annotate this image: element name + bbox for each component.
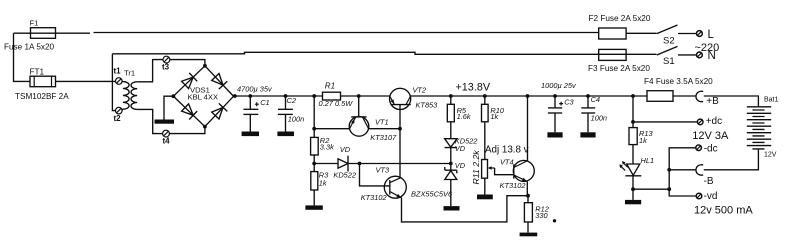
- resistor R5: [450, 96, 452, 104]
- wire R10 to R11: [484, 122, 486, 160]
- svg-text:1k: 1k: [639, 136, 647, 145]
- wire VT2 base / VT3 collector column: [399, 105, 401, 179]
- node rail C3: [553, 94, 557, 98]
- switch S2: [657, 25, 678, 34]
- fuse FT1: [30, 76, 56, 87]
- svg-text:100n: 100n: [288, 114, 304, 123]
- node KD522 to VT3 base: [358, 162, 362, 166]
- diode bridge bottom-right: [212, 103, 228, 119]
- svg-text:+dc: +dc: [706, 116, 722, 127]
- node rail C4: [586, 94, 590, 98]
- ground bridge: [155, 120, 175, 124]
- capacitor C1: [249, 96, 251, 132]
- svg-text:12V 3A: 12V 3A: [692, 130, 729, 142]
- diode VD KD522 left: [338, 156, 348, 172]
- wire N down to t2: [112, 54, 115, 111]
- wire secondary bottom to t4: [137, 109, 162, 133]
- wire VD to zener node: [450, 148, 452, 171]
- wire LED node to negative column: [633, 188, 669, 190]
- node rail bridge output: [233, 94, 237, 98]
- capacitor C3: [554, 96, 556, 132]
- wire left vertical F1 to FT1: [14, 33, 31, 81]
- wire dc positive rail: [234, 95, 696, 97]
- svg-text:+B: +B: [706, 96, 719, 107]
- svg-text:330: 330: [535, 211, 548, 220]
- node zener KD row: [449, 162, 453, 166]
- svg-text:VT2: VT2: [413, 86, 427, 95]
- ground C1: [242, 132, 259, 137]
- terminal t4: [163, 130, 170, 137]
- svg-text:KT3102: KT3102: [361, 193, 387, 202]
- node VT1 emitter tap: [312, 127, 316, 131]
- capacitor C2: [285, 96, 287, 132]
- svg-text:3.3k: 3.3k: [320, 143, 334, 152]
- svg-text:1k: 1k: [319, 178, 327, 187]
- svg-text:C3: C3: [564, 98, 574, 107]
- node -vd tap: [667, 187, 671, 191]
- svg-text:0.27 0.5W: 0.27 0.5W: [319, 99, 354, 108]
- node bridge left corner: [172, 94, 176, 98]
- node rail C2: [284, 94, 288, 98]
- wire L mains top rail: [14, 32, 657, 35]
- wire t3 to bridge top corner: [170, 60, 205, 66]
- svg-text:F2 Fuse 2A 5x20: F2 Fuse 2A 5x20: [589, 14, 651, 23]
- resistor R3: [311, 172, 318, 190]
- svg-text:1k: 1k: [490, 112, 498, 121]
- node R12 top: [526, 194, 530, 198]
- svg-text:L: L: [708, 29, 715, 41]
- terminal t2: [116, 107, 123, 114]
- svg-text:12v 500 mA: 12v 500 mA: [694, 205, 753, 217]
- ground R11: [477, 195, 493, 200]
- terminal t1: [116, 78, 123, 85]
- diode VD KD522 right: [445, 139, 457, 148]
- node bridge top corner: [203, 64, 207, 68]
- label + C1: [255, 102, 259, 106]
- svg-text:t3: t3: [162, 63, 170, 72]
- wire t4 to bridge bottom corner: [169, 127, 205, 134]
- diode bridge top-left: [182, 73, 198, 89]
- svg-text:S1: S1: [663, 56, 675, 67]
- transformer Tr1 primary winding: [122, 81, 129, 110]
- svg-text:F4 Fuse 3.5A 5x20: F4 Fuse 3.5A 5x20: [644, 77, 713, 86]
- node rail C1: [248, 94, 252, 98]
- fuse F2: [599, 28, 626, 39]
- wire R13 to LED: [632, 145, 634, 164]
- diode bridge top-right: [212, 74, 228, 90]
- svg-text:TSM102BF 2A: TSM102BF 2A: [15, 92, 69, 101]
- svg-text:BZX55C5V6: BZX55C5V6: [411, 189, 453, 198]
- wire R12 to ground: [527, 222, 529, 233]
- battery Bat1: [747, 107, 771, 146]
- svg-text:Bat1: Bat1: [764, 97, 779, 104]
- wire FT1 row: [56, 80, 116, 82]
- fuse F3: [599, 49, 626, 60]
- wire R5 to VD chain: [450, 122, 452, 139]
- wire -dc to negative column: [669, 148, 696, 196]
- svg-text:R11 2.2k: R11 2.2k: [471, 150, 481, 185]
- resistor R10: [484, 96, 486, 104]
- svg-text:4700µ 35v: 4700µ 35v: [237, 85, 273, 94]
- svg-text:Fuse 1A 5x20: Fuse 1A 5x20: [4, 43, 55, 52]
- svg-text:KBL 4XX: KBL 4XX: [188, 93, 219, 102]
- diode bridge bottom-left: [182, 104, 198, 120]
- wiper R11: [489, 167, 494, 169]
- stray dot: [553, 219, 556, 222]
- svg-text:-vd: -vd: [704, 191, 718, 202]
- node +dc tap: [631, 120, 635, 124]
- transistor VT2: [390, 88, 411, 109]
- svg-text:t2: t2: [114, 114, 122, 123]
- wire left bias rail down: [313, 96, 315, 172]
- svg-text:1.6k: 1.6k: [457, 112, 471, 121]
- wire N mains rail: [112, 52, 656, 54]
- svg-text:VD: VD: [455, 144, 466, 153]
- connector +B: [696, 91, 703, 101]
- wire battery minus to -B: [704, 149, 759, 170]
- svg-text:100n: 100n: [591, 114, 607, 123]
- svg-text:C2: C2: [287, 96, 296, 105]
- svg-text:S2: S2: [663, 36, 675, 47]
- svg-text:KD522: KD522: [333, 171, 356, 180]
- wire zener to ground: [450, 180, 452, 207]
- svg-text:F3 Fuse 2A 5x20: F3 Fuse 2A 5x20: [588, 64, 650, 73]
- svg-text:~220: ~220: [695, 42, 720, 54]
- svg-text:F1: F1: [30, 19, 39, 28]
- bridge rectifier VDS1 diamond: [173, 66, 233, 127]
- wire bridge minus to ground: [164, 96, 173, 119]
- node VT2 base column: [398, 127, 402, 131]
- svg-text:C1: C1: [260, 98, 269, 107]
- svg-text:Tr1: Tr1: [124, 69, 135, 78]
- svg-text:R1: R1: [325, 82, 335, 91]
- ground C4: [580, 132, 595, 137]
- svg-text:VT1: VT1: [375, 118, 389, 127]
- svg-text:-B: -B: [704, 176, 714, 187]
- label + C3: [559, 102, 563, 106]
- wire VT3 base: [360, 164, 390, 186]
- node rail R10: [483, 94, 487, 98]
- ground HL1: [625, 200, 641, 204]
- svg-text:VD: VD: [455, 161, 466, 170]
- svg-text:FT1: FT1: [30, 67, 45, 76]
- wire R13 column top: [632, 96, 634, 128]
- node KD522 row tap: [312, 162, 316, 166]
- svg-text:KT3102: KT3102: [500, 181, 526, 190]
- fuse F4: [647, 91, 673, 102]
- svg-text:VT4: VT4: [500, 157, 514, 166]
- terminal +dc: [697, 119, 703, 125]
- svg-text:C4: C4: [591, 95, 600, 104]
- ground C3: [547, 132, 562, 137]
- ground zener: [444, 206, 460, 210]
- terminal -dc: [696, 145, 702, 151]
- wire -B: [669, 169, 696, 171]
- wire LED to ground node: [632, 176, 634, 200]
- node bridge bottom corner: [203, 125, 207, 129]
- switch S1: [657, 46, 678, 55]
- wire R11 to ground: [484, 178, 486, 194]
- ground C2: [277, 132, 294, 137]
- wire KD522 row: [314, 163, 451, 165]
- svg-text:HL1: HL1: [641, 156, 655, 165]
- node -B tap: [667, 168, 671, 172]
- terminal -vd: [696, 193, 702, 199]
- capacitor C4: [587, 96, 589, 132]
- transformer Tr1 secondary winding: [131, 82, 137, 110]
- resistor R12: [527, 196, 529, 203]
- node rail R13 tap: [631, 94, 635, 98]
- wire R3 to ground: [313, 190, 315, 205]
- transistor VT4: [513, 160, 534, 181]
- svg-text:12V: 12V: [764, 152, 777, 159]
- potentiometer R11: [482, 160, 488, 179]
- resistor R1: [323, 92, 341, 100]
- svg-text:1000µ 25v: 1000µ 25v: [541, 81, 577, 90]
- svg-text:-dc: -dc: [704, 143, 718, 154]
- wire VT4 emitter: [526, 181, 528, 195]
- svg-text:t1: t1: [114, 67, 122, 76]
- terminal L: [697, 31, 703, 37]
- transistor VT1: [349, 117, 369, 137]
- svg-text:+13.8V: +13.8V: [456, 81, 491, 93]
- svg-text:VT3: VT3: [376, 165, 390, 174]
- wire VT1 collector to VT2 base column: [369, 128, 400, 130]
- zener diode BZX55C5V6: [445, 167, 457, 180]
- wire VT1 emitter: [314, 128, 349, 130]
- node LED bottom: [631, 187, 635, 191]
- resistor R13: [629, 128, 637, 145]
- wire secondary top to t3: [137, 60, 163, 82]
- wire VT4 collector: [527, 96, 529, 161]
- connector -B: [696, 165, 703, 175]
- svg-text:VD: VD: [340, 145, 351, 154]
- svg-text:KT853: KT853: [416, 101, 439, 110]
- node rail VT4 collector: [526, 94, 530, 98]
- LED HL1: [625, 164, 641, 176]
- svg-text:t4: t4: [163, 137, 171, 146]
- wire +dc: [633, 121, 697, 123]
- resistor R2: [311, 137, 319, 155]
- terminal N: [697, 52, 703, 58]
- wire +B to battery: [704, 96, 759, 107]
- transistor VT3: [384, 176, 406, 198]
- fuse F1: [31, 28, 56, 39]
- ground R12: [520, 233, 538, 237]
- node rail VT1 base tap: [357, 94, 361, 98]
- node rail R5: [449, 94, 453, 98]
- svg-text:KT3107: KT3107: [370, 133, 397, 142]
- ground R3: [305, 205, 322, 209]
- wire VT3 emitter to R12 node: [402, 196, 529, 222]
- terminal t3: [163, 56, 170, 63]
- node rail left bias rail: [312, 94, 316, 98]
- svg-text:Adj 13.8 v: Adj 13.8 v: [485, 144, 529, 155]
